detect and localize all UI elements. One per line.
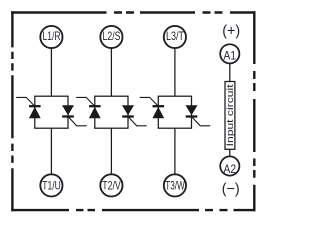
wire: input circuit to A2 (229, 149, 231, 156)
SCR pair 2 bridge loop (95, 96, 128, 128)
terminal L2/S (100, 26, 122, 48)
gate lead of thyristor 1b (68, 117, 87, 126)
svg-text:L1/R: L1/R (43, 29, 61, 43)
thyristor 3b (right, cathode down) (186, 105, 198, 116)
svg-text:(−): (−) (222, 180, 240, 197)
terminal A1 (220, 44, 239, 63)
wire: L3/T to SCR pair 3 (174, 48, 176, 96)
wire: SCR pair 3 to T3/W (174, 128, 176, 174)
SCR pair 3 bridge loop (158, 96, 191, 128)
wire: A1 to input circuit (229, 63, 231, 81)
SCR pair 1 bridge loop (35, 96, 68, 128)
thyristor 2b (right, cathode down) (122, 105, 134, 116)
wire: SCR pair 2 to T2/V (110, 128, 112, 174)
gate lead of thyristor 2a (76, 97, 95, 106)
input circuit block U1 (225, 82, 235, 150)
wire: L1/R to SCR pair 1 (50, 48, 52, 96)
thyristor 3a (left, cathode up) (152, 106, 164, 118)
thyristor 1a (left, cathode up) (29, 106, 41, 118)
svg-text:L3/T: L3/T (166, 29, 184, 43)
terminal L1/R (40, 26, 62, 48)
svg-text:T3/W: T3/W (165, 179, 185, 193)
wire: L2/S to SCR pair 2 (110, 48, 112, 96)
svg-text:Input circuit: Input circuit (225, 84, 235, 147)
wire: SCR pair 1 to T1/U (50, 128, 52, 174)
thyristor 1b (right, cathode down) (62, 105, 74, 116)
terminal T3/W (164, 174, 186, 196)
module boundary (dashed enclosure), top side (11, 11, 255, 13)
terminal T2/V (100, 174, 122, 196)
gate lead of thyristor 3b (192, 117, 211, 126)
module boundary (dashed enclosure), bottom side (11, 209, 255, 211)
gate lead of thyristor 3a (140, 97, 159, 106)
terminal A2 (220, 156, 239, 176)
svg-text:T2/V: T2/V (102, 179, 121, 193)
gate lead of thyristor 1a (16, 97, 35, 106)
terminal L3/T (164, 26, 186, 48)
thyristor 2a (left, cathode up) (89, 106, 101, 118)
svg-text:A1: A1 (224, 48, 237, 62)
svg-text:(+): (+) (222, 23, 240, 40)
svg-text:T1/U: T1/U (42, 179, 61, 193)
terminal T1/U (40, 174, 62, 196)
module boundary (dashed enclosure), left side (11, 11, 13, 211)
svg-text:A2: A2 (224, 162, 237, 176)
gate lead of thyristor 2b (128, 117, 147, 126)
svg-text:L2/S: L2/S (103, 29, 121, 43)
module boundary (dashed enclosure), right side (253, 11, 255, 211)
